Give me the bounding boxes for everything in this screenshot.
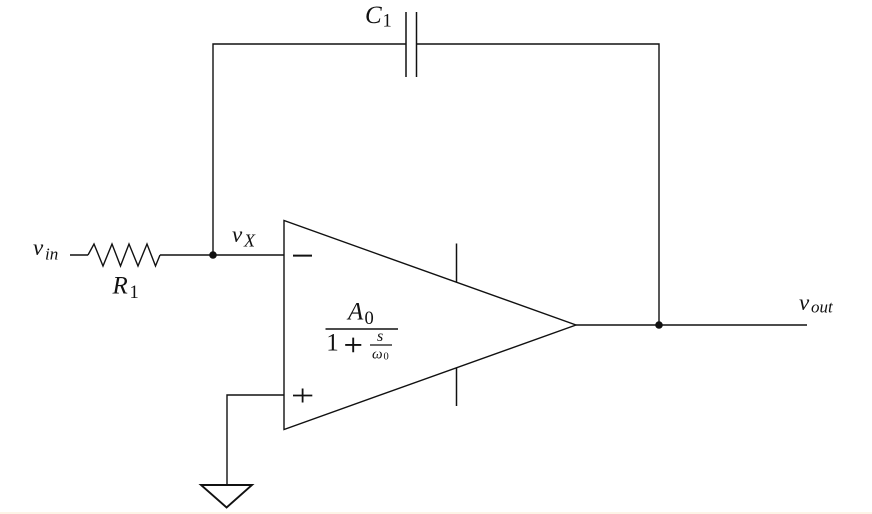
capacitor C1 xyxy=(406,12,417,77)
wire feedback top right and down to output node xyxy=(417,44,660,325)
op-amp positive supply pin xyxy=(456,244,458,283)
svg-text:R: R xyxy=(112,273,128,300)
svg-text:C: C xyxy=(365,2,382,29)
op-amp inverting input minus sign xyxy=(293,255,312,257)
svg-text:1: 1 xyxy=(130,283,139,303)
svg-text:0: 0 xyxy=(365,309,374,329)
node vX junction dot xyxy=(209,251,217,259)
svg-text:A: A xyxy=(346,298,364,325)
op-amp non-inverting input plus sign xyxy=(293,389,312,403)
svg-text:out: out xyxy=(811,298,834,317)
ground xyxy=(201,485,252,508)
op-amp gain label A0 over (1 + s/omega0) xyxy=(326,298,399,362)
svg-text:1: 1 xyxy=(383,11,392,31)
wire op-amp output xyxy=(576,324,807,326)
label C1 xyxy=(365,2,392,32)
wire input stub xyxy=(70,254,88,256)
wire non-inverting input to ground xyxy=(227,395,284,485)
svg-text:1: 1 xyxy=(326,330,339,357)
svg-text:0: 0 xyxy=(384,352,389,363)
label R1 xyxy=(112,273,139,304)
svg-text:v: v xyxy=(33,235,44,260)
label vX xyxy=(232,222,256,251)
wire resistor to op-amp inverting input xyxy=(160,254,284,256)
svg-text:X: X xyxy=(243,231,256,251)
bottom page border xyxy=(0,512,872,514)
svg-text:ω: ω xyxy=(372,346,383,362)
wire feedback left vertical and top to capacitor xyxy=(213,44,406,255)
op-amp negative supply pin xyxy=(456,368,458,406)
label vin xyxy=(33,235,58,264)
op-amp U1 triangle xyxy=(284,221,576,430)
resistor R1 xyxy=(88,244,160,266)
svg-text:in: in xyxy=(45,245,58,264)
svg-text:v: v xyxy=(799,290,810,315)
label vout xyxy=(799,290,834,317)
svg-text:v: v xyxy=(232,222,243,247)
node vout junction dot xyxy=(655,321,663,329)
svg-text:s: s xyxy=(377,328,383,345)
